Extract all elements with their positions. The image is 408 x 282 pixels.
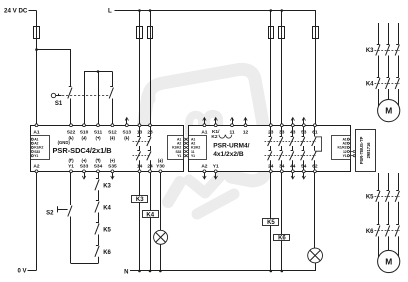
contactor coil K6 xyxy=(274,235,290,241)
junction on N rail xyxy=(270,270,273,273)
terminal U2 62 (bottom) xyxy=(314,170,317,173)
svg-text:0 V: 0 V xyxy=(17,269,26,275)
svg-text:K5: K5 xyxy=(366,195,374,201)
continuation arrow below U1 S35 xyxy=(112,173,114,179)
wire U2 pin Y1 to TBUS xyxy=(350,155,355,157)
pin U1 tbus-left K1/K2 xyxy=(31,146,33,148)
feedback NC contact K3 xyxy=(96,178,99,180)
fuse F4 xyxy=(269,27,274,39)
svg-text:Y1: Y1 xyxy=(213,163,219,169)
terminal U1 S22 xyxy=(70,124,73,127)
TBUS link wires between U1 and U2 xyxy=(183,139,189,141)
svg-text:K6: K6 xyxy=(366,229,374,235)
U1 TBUS pin box right xyxy=(168,136,184,160)
svg-text:Y1: Y1 xyxy=(34,154,38,158)
terminal U1 A2 (bottom) xyxy=(35,170,38,173)
motor M1 xyxy=(378,100,400,122)
feedback NC contact K6 xyxy=(96,245,99,247)
svg-text:Y1: Y1 xyxy=(191,154,195,158)
svg-text:K3: K3 xyxy=(136,197,144,203)
terminal U1 S10 xyxy=(83,124,86,127)
wire fuse drop to relay2 terminal 23 xyxy=(270,11,272,124)
safety relay U1 PSR-SDC4/2x1/B body xyxy=(31,126,184,172)
fuse F2 xyxy=(137,27,143,39)
wires K6 to motor M2 xyxy=(378,236,380,257)
contactor contacts K4 (3-pole) xyxy=(377,77,380,79)
junction on L at 23 drop xyxy=(149,9,152,12)
continuation arrow above U2 A1 xyxy=(204,118,206,124)
continuation arrow above S13 xyxy=(126,118,128,124)
pin U1 tbus-left A1 xyxy=(31,138,33,140)
svg-text:K5: K5 xyxy=(267,220,275,226)
terminal U2 24 (bottom) xyxy=(269,170,272,173)
terminal U2 12 xyxy=(244,124,247,127)
svg-text:K2: K2 xyxy=(211,134,217,140)
continuation arrow above U2 11 xyxy=(232,118,234,124)
feedback NC contact K5 xyxy=(96,222,99,224)
U2 TBUS pin box right xyxy=(332,136,351,160)
terminal U2 43 xyxy=(291,124,294,127)
junction on N rail xyxy=(159,270,162,273)
continuation arrow above U2 K1/K2 xyxy=(215,118,217,124)
svg-text:4x1/2x2/B: 4x1/2x2/B xyxy=(213,151,244,158)
terminal U1 S11 xyxy=(97,124,100,127)
feedback NC contact K4 xyxy=(96,200,99,202)
wire terminal 24 to coil K4 xyxy=(150,173,152,211)
svg-text:K6: K6 xyxy=(103,250,111,256)
indicator lamp H2 xyxy=(308,248,323,263)
motor M2 xyxy=(378,250,400,272)
terminal U1 S12 xyxy=(111,124,114,127)
terminal U1 14 (bottom) xyxy=(138,170,141,173)
wire terminal 14 to coil K3 xyxy=(139,173,141,196)
svg-text:62: 62 xyxy=(312,163,318,169)
terminal U1 S33 (bottom) xyxy=(83,170,86,173)
svg-text:S2: S2 xyxy=(46,210,54,216)
fuse F6 xyxy=(313,27,319,39)
wires K4 to motor M1 xyxy=(378,89,380,107)
svg-text:11: 11 xyxy=(229,129,234,135)
U2 TBUS pin box left xyxy=(189,136,207,160)
U1 TBUS pin box left xyxy=(31,136,50,160)
svg-text:Y1: Y1 xyxy=(343,154,347,158)
wire U1 S34 down to feedback contacts xyxy=(98,173,100,179)
contactor contacts K5 (3-pole) xyxy=(377,190,380,192)
continuation arrow above U2 12 xyxy=(245,118,247,124)
wire U1 A2 to 0 V xyxy=(36,173,38,271)
contactor coil K4 xyxy=(143,211,159,218)
continuation arrow below U1 S33 xyxy=(84,173,86,179)
svg-text:2981716: 2981716 xyxy=(366,142,371,159)
wire fuse drop to terminal 13 xyxy=(139,11,141,124)
terminal U2 54 (bottom) xyxy=(302,170,305,173)
terminal U1 S35 (bottom) xyxy=(111,170,114,173)
junction on N rail xyxy=(138,270,141,273)
U2 internal NO contact column x=292.8 xyxy=(292,127,294,137)
svg-text:(GND): (GND) xyxy=(58,140,71,145)
terminal U1 S13 xyxy=(125,124,128,127)
terminal U1 Y1 (bottom) xyxy=(70,170,73,173)
svg-text:24 V DC: 24 V DC xyxy=(4,7,28,14)
safety relay U2 PSR-URM4/4x1/2x2/B body xyxy=(189,126,351,172)
wire U2 terminal 34 to coil K6 xyxy=(281,173,283,234)
svg-text:A1: A1 xyxy=(201,129,207,135)
fuse F1 xyxy=(34,27,40,39)
svg-text:61: 61 xyxy=(312,129,318,135)
fuse F3 xyxy=(148,27,153,39)
three-phase lines to motor M1 xyxy=(378,23,380,44)
wire L rail xyxy=(115,10,316,12)
pushbutton S2 (reset) xyxy=(68,206,72,217)
U2 internal linkage dashes xyxy=(265,141,317,143)
contactor contacts K6 (3-pole) xyxy=(377,224,380,226)
svg-text:PSR-TBUS-TP: PSR-TBUS-TP xyxy=(359,136,364,164)
svg-text:Y1: Y1 xyxy=(177,154,181,158)
svg-text:12: 12 xyxy=(243,129,249,135)
wire S10-S11 jumper bracket xyxy=(84,71,112,73)
junction on bracket at S11 xyxy=(97,70,100,73)
key switch S1 contact b xyxy=(110,86,113,88)
svg-text:K3: K3 xyxy=(103,183,111,189)
continuation arrow above U2 43 xyxy=(292,118,294,124)
svg-text:S34: S34 xyxy=(94,163,103,169)
svg-text:Y30: Y30 xyxy=(156,163,165,169)
svg-text:S1: S1 xyxy=(55,101,63,107)
terminal U1 23 xyxy=(149,124,152,127)
svg-text:S13: S13 xyxy=(123,129,132,135)
three-phase lines to motor M2 xyxy=(378,173,380,190)
svg-text:A1: A1 xyxy=(33,129,39,135)
terminal U1 Y30 (bottom) xyxy=(159,170,162,173)
terminal U2 A1 xyxy=(203,124,206,127)
indicator lamp H1 xyxy=(154,230,168,244)
terminal U1 13 xyxy=(138,124,141,127)
terminal U2 23 xyxy=(269,124,272,127)
key switch S1 contact a xyxy=(69,86,72,88)
pin U1 tbus-left S33 xyxy=(31,150,33,152)
svg-text:A2: A2 xyxy=(33,163,39,169)
svg-text:S11: S11 xyxy=(94,129,103,135)
terminal U2 A2 (bottom) xyxy=(203,170,206,173)
terminal U1 A1 xyxy=(35,124,38,127)
junction on N rail xyxy=(281,270,284,273)
wire terminal Y30 to lamp H1 xyxy=(160,173,162,231)
terminal U2 44 (bottom) xyxy=(291,170,294,173)
svg-text:S22: S22 xyxy=(67,129,76,135)
wire 24V branch to S1 contact a xyxy=(37,49,72,51)
svg-text:M: M xyxy=(385,106,392,116)
svg-text:L: L xyxy=(108,8,112,15)
svg-text:S33: S33 xyxy=(80,163,89,169)
key switch S1 actuator and label xyxy=(51,93,55,97)
continuation arrow above U2 53 xyxy=(303,118,305,124)
U1 internal linkage dashes xyxy=(133,141,151,143)
wire U1 Y1 down to S2 xyxy=(70,173,72,205)
wire L rail end drop to terminal 61 xyxy=(315,10,317,124)
svg-text:S12: S12 xyxy=(108,129,117,135)
terminal U1 24 (bottom) xyxy=(149,170,152,173)
svg-text:K5: K5 xyxy=(103,228,111,234)
terminal U2 Y1 (bottom) xyxy=(214,170,217,173)
U2 internal NO contact column x=270.8 xyxy=(270,127,272,137)
contactor contacts K3 (3-pole) xyxy=(377,44,380,46)
pin U1 tbus-left A2 xyxy=(31,142,33,144)
svg-text:Y1: Y1 xyxy=(68,163,74,169)
U2 internal NC contact 61-62 xyxy=(314,127,316,137)
continuation arrow below U2 A2 xyxy=(204,173,206,179)
bus connector U3 PSR-TBUS-TP body xyxy=(356,130,376,172)
svg-text:PSR-SDC4/2x1/B: PSR-SDC4/2x1/B xyxy=(53,146,112,155)
terminal U2 11 xyxy=(231,124,234,127)
contactor coil K3 xyxy=(132,196,148,203)
wire fuse drop to relay2 terminal 33 xyxy=(281,11,283,124)
wire U2 terminal 62 to lamp H2 xyxy=(314,173,316,249)
junction on L at relay2-33 drop xyxy=(281,9,284,12)
junction on L at relay2-23 drop xyxy=(270,9,273,12)
wire bracket to S1 contact b xyxy=(112,72,114,88)
wire 24V to fuse column xyxy=(29,10,37,12)
U1 internal contact 13-14 xyxy=(139,127,141,137)
svg-text:A2: A2 xyxy=(201,163,207,169)
U1 internal contact 23-24 xyxy=(150,127,152,137)
svg-text:S35: S35 xyxy=(108,163,117,169)
svg-text:S10: S10 xyxy=(80,129,89,135)
wire S2 down and across to feedback chain xyxy=(70,217,72,264)
terminal U2 34 (bottom) xyxy=(280,170,283,173)
svg-text:M: M xyxy=(385,257,392,267)
continuation arrow below U2 54 xyxy=(303,173,305,179)
U2 internal NO contact column x=281.8 xyxy=(281,127,283,137)
junction on N rail xyxy=(149,270,152,273)
continuation arrow below U2 44 xyxy=(292,173,294,179)
svg-text:K6: K6 xyxy=(278,236,286,242)
wire U2 pin 12 to TBUS xyxy=(350,151,355,153)
wire fuse drop to terminal 23 xyxy=(150,11,152,124)
terminal U1 S34 (bottom) xyxy=(97,170,100,173)
svg-text:K3: K3 xyxy=(366,48,374,54)
junction on L at 13 drop xyxy=(138,9,141,12)
svg-text:PSR-URM4/: PSR-URM4/ xyxy=(213,143,249,150)
contactor coil K5 xyxy=(263,219,279,226)
wire U2 terminal 24 to coil K5 xyxy=(270,173,272,219)
terminal U2 K1/K2 xyxy=(214,124,217,127)
pin U1 tbus-left Y1 xyxy=(31,155,33,157)
terminal U2 61 xyxy=(314,124,317,127)
continuation arrow below U2 Y1 xyxy=(215,173,217,179)
terminal U2 33 xyxy=(280,124,283,127)
decorative watermark (ignore) xyxy=(143,69,265,214)
U2 internal NO contact column x=303.8 xyxy=(303,127,305,137)
svg-text:K4: K4 xyxy=(103,206,111,212)
U2 jumper symbol 11-12 xyxy=(219,135,225,138)
terminal U2 53 xyxy=(302,124,305,127)
svg-text:K4: K4 xyxy=(366,82,374,88)
fuse F5 xyxy=(279,27,285,39)
svg-text:N: N xyxy=(124,269,128,275)
